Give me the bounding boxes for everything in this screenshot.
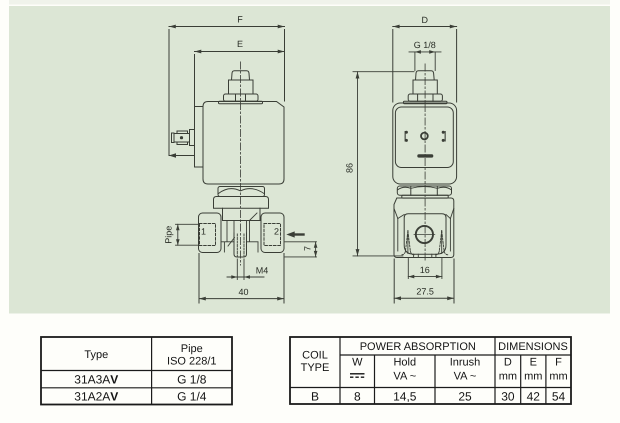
svg-text:7: 7 <box>302 246 312 251</box>
center screw <box>421 133 428 140</box>
M4 dimension <box>227 259 264 280</box>
collar <box>214 197 269 209</box>
dimension 27.5 <box>394 259 454 303</box>
left table frame <box>41 337 232 405</box>
svg-text:VA ~: VA ~ <box>454 371 477 383</box>
dimension D line <box>393 27 457 103</box>
svg-text:F: F <box>555 357 562 369</box>
svg-text:8: 8 <box>354 389 361 403</box>
svg-text:42: 42 <box>527 389 541 403</box>
svg-text:D: D <box>421 15 428 25</box>
seat feet <box>414 254 436 257</box>
svg-text:27.5: 27.5 <box>416 287 434 297</box>
port thread square 2 (dashed) <box>264 224 281 246</box>
right port boss <box>261 213 284 253</box>
green drawing panel <box>9 6 610 314</box>
svg-text:W: W <box>352 357 363 369</box>
svg-text:VA ~: VA ~ <box>393 371 416 383</box>
svg-text:TYPE: TYPE <box>301 362 330 374</box>
top fitting flange (front) <box>403 101 447 104</box>
dimension 40 <box>199 254 284 304</box>
top fitting cap (left view) <box>232 71 250 80</box>
svg-text:14,5: 14,5 <box>393 389 417 403</box>
dimension G1/8 <box>409 52 441 71</box>
top fitting hex <box>224 94 259 101</box>
valve block (front) <box>394 198 454 258</box>
svg-text:COIL: COIL <box>302 349 328 361</box>
svg-text:mm: mm <box>549 371 567 383</box>
dimension F line <box>169 25 285 156</box>
dimension E line <box>195 50 285 106</box>
dimension 7 <box>285 242 317 257</box>
coil body front <box>393 103 457 184</box>
top fitting flange <box>219 101 263 104</box>
svg-text:B: B <box>311 389 319 403</box>
top fitting cap (front) <box>416 71 435 80</box>
mounting hole right (dashed spike) <box>436 231 448 255</box>
coil yoke plate <box>195 107 204 168</box>
Pipe dimension <box>176 224 200 245</box>
pocket shoulders / inner walls <box>394 208 454 251</box>
port thread square 1 (dashed) <box>200 224 216 246</box>
DIN connector side view <box>172 130 195 146</box>
svg-text:F: F <box>237 14 243 24</box>
top fitting stem nut (front) <box>413 80 437 94</box>
svg-text:DIMENSIONS: DIMENSIONS <box>498 341 568 353</box>
svg-text:G 1/8: G 1/8 <box>414 40 436 50</box>
left face marking <box>405 131 408 142</box>
top fitting hex (front) <box>408 94 442 101</box>
svg-text:31A3AV: 31A3AV <box>74 373 118 387</box>
connector pin dot <box>180 136 183 139</box>
svg-text:Inrush: Inrush <box>450 357 481 369</box>
svg-text:2: 2 <box>274 227 279 237</box>
svg-text:mm: mm <box>524 371 542 383</box>
right table text <box>301 341 568 403</box>
mounting hole left (dashed spike) <box>402 231 414 255</box>
svg-text:G 1/4: G 1/4 <box>177 390 207 404</box>
left table text <box>74 343 216 404</box>
port circle <box>416 226 433 243</box>
svg-text:54: 54 <box>552 389 566 403</box>
dimension 86 <box>353 72 414 256</box>
hex nut under body (left view) <box>218 187 265 197</box>
svg-text:G 1/8: G 1/8 <box>177 373 207 387</box>
nut band <box>402 195 448 198</box>
svg-text:Pipe: Pipe <box>181 343 203 355</box>
M4 stud <box>234 233 247 257</box>
inner pocket <box>404 214 446 254</box>
svg-text:D: D <box>504 357 512 369</box>
svg-text:Hold: Hold <box>393 357 416 369</box>
svg-text:Pipe: Pipe <box>164 226 174 244</box>
svg-text:POWER ABSORPTION: POWER ABSORPTION <box>360 341 476 353</box>
svg-text:16: 16 <box>420 265 430 275</box>
coil body (left view) <box>203 102 284 185</box>
svg-text:M4: M4 <box>256 266 269 276</box>
svg-text:86: 86 <box>344 163 354 173</box>
hex nut (front) <box>397 186 451 195</box>
right face marking <box>442 131 446 142</box>
svg-text:ISO 228/1: ISO 228/1 <box>167 356 217 368</box>
centerline right view <box>424 64 426 262</box>
svg-text:E: E <box>237 39 243 49</box>
svg-text:25: 25 <box>458 389 472 403</box>
svg-text:E: E <box>530 357 537 369</box>
svg-text:mm: mm <box>499 371 517 383</box>
page top faint band <box>9 0 610 5</box>
dimension 16 <box>408 259 442 279</box>
centerline left view <box>240 62 242 265</box>
left port boss <box>199 213 222 253</box>
right table frame <box>290 337 571 404</box>
svg-text:31A2AV: 31A2AV <box>74 390 118 404</box>
svg-text:40: 40 <box>238 287 248 297</box>
face slot <box>417 154 433 157</box>
neck <box>222 208 224 220</box>
top fitting stem nut <box>229 80 254 94</box>
flow arrow into port 2 <box>293 233 304 235</box>
DC symbol under W <box>350 374 365 377</box>
svg-text:Type: Type <box>84 349 108 361</box>
svg-text:30: 30 <box>501 389 515 403</box>
coil face inner square <box>395 107 453 168</box>
web internal lines <box>221 213 258 252</box>
connector tip arrow line <box>169 155 195 157</box>
svg-text:1: 1 <box>201 227 206 237</box>
